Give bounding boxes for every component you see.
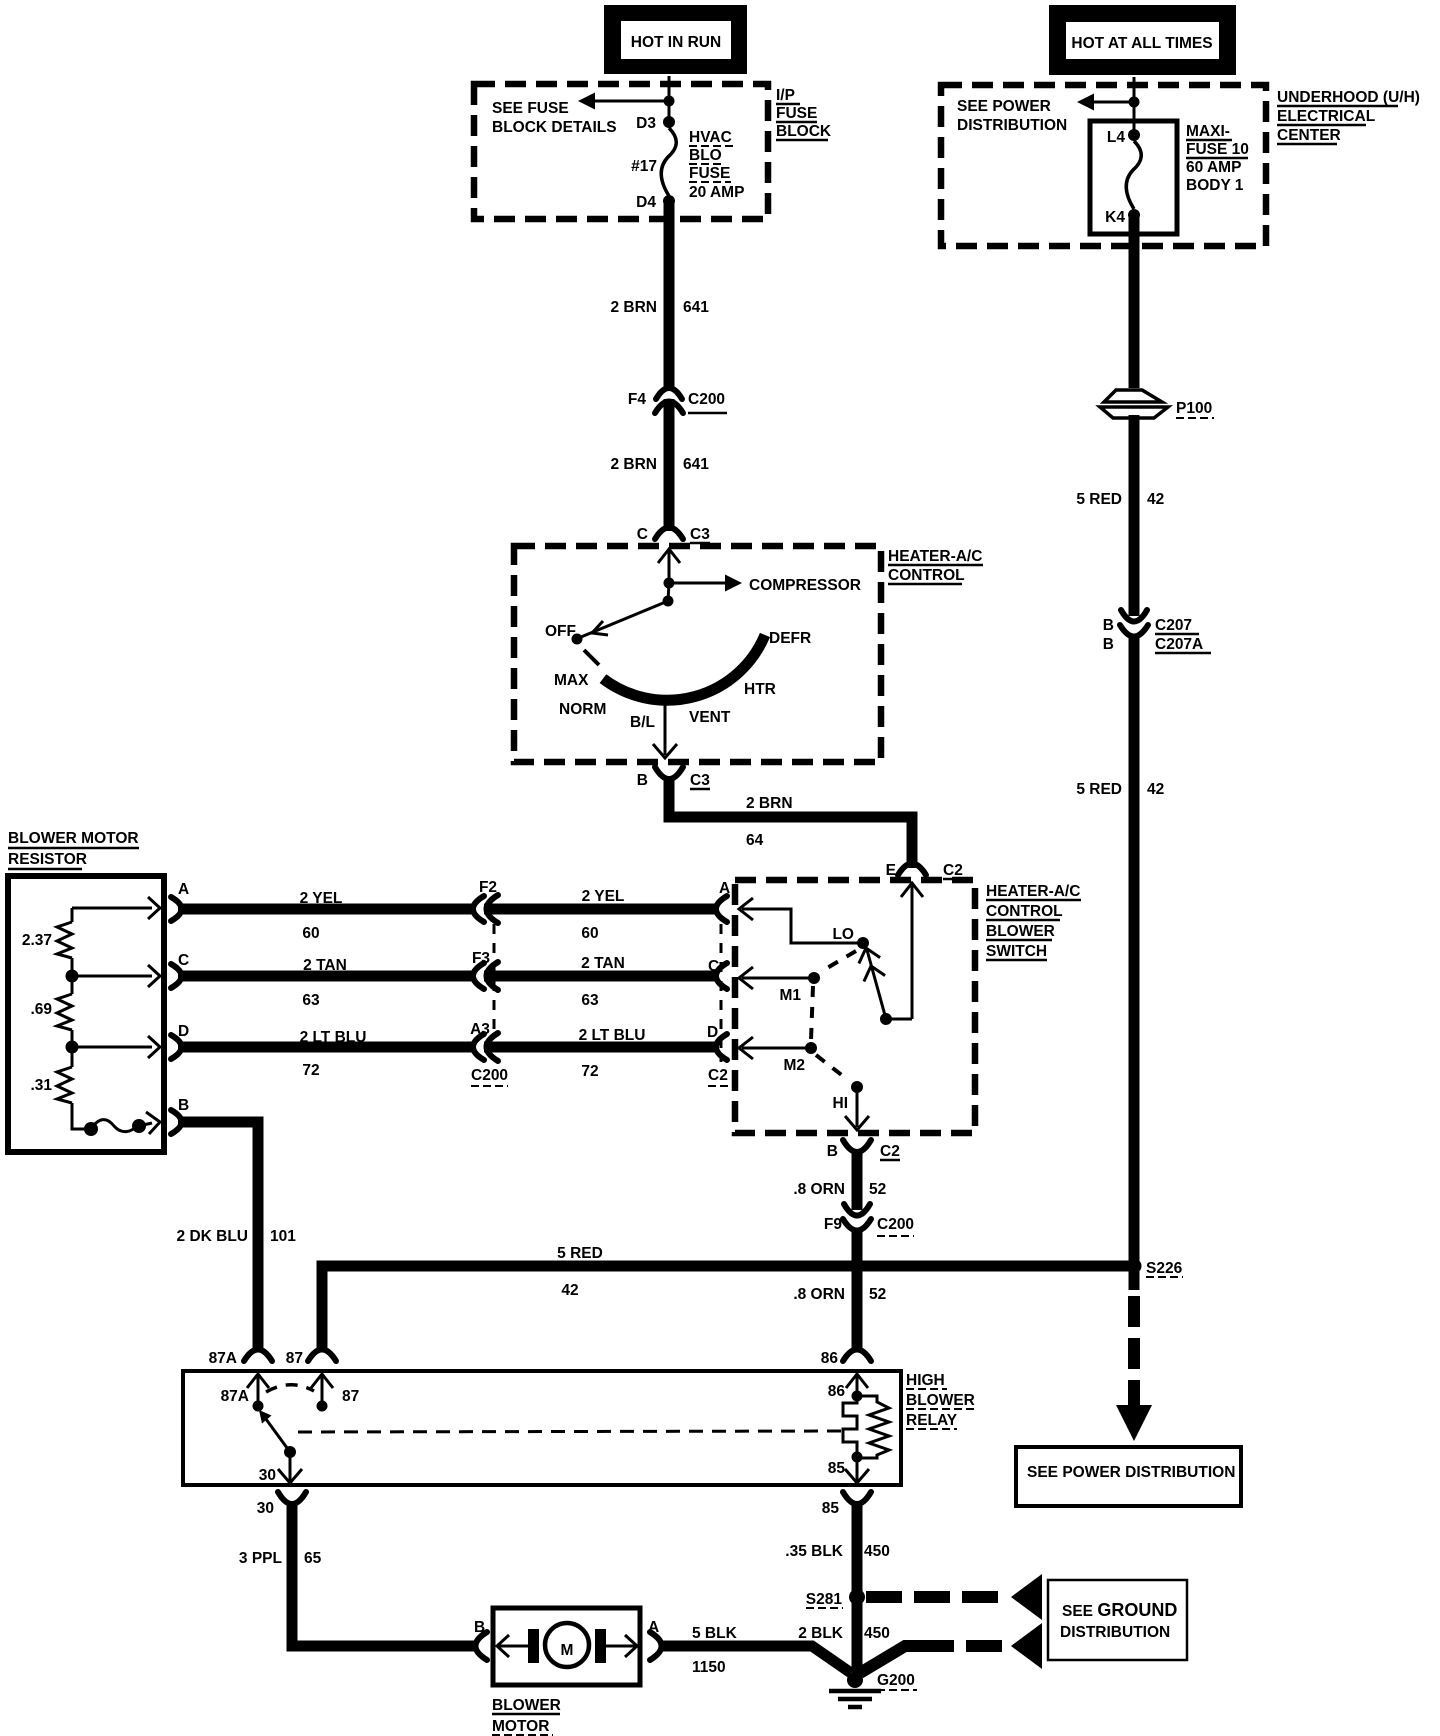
blower motor box bbox=[493, 1608, 640, 1685]
node K4 bbox=[1105, 209, 1140, 226]
wire into maxifuse bbox=[1133, 102, 1136, 135]
svg-text:CONTROL: CONTROL bbox=[986, 903, 1063, 920]
svg-text:A: A bbox=[719, 880, 730, 897]
underhood electrical center (dashed box) bbox=[941, 85, 1266, 246]
svg-text:42: 42 bbox=[1147, 781, 1164, 798]
reference box SEE POWER DISTRIBUTION bbox=[1016, 1447, 1241, 1506]
svg-text:87: 87 bbox=[286, 1350, 303, 1367]
svg-text:D: D bbox=[178, 1023, 189, 1040]
wire to node D bbox=[71, 1030, 74, 1047]
relay actuation dashed link bbox=[298, 1431, 842, 1432]
svg-text:C: C bbox=[178, 952, 189, 969]
svg-text:.31: .31 bbox=[30, 1077, 52, 1094]
svg-text:C207: C207 bbox=[1155, 617, 1192, 634]
detent dashes LO M1 M2 HI bbox=[811, 951, 856, 1080]
node LO bbox=[832, 926, 869, 949]
switch wiper to OFF bbox=[581, 601, 668, 637]
svg-text:1150: 1150 bbox=[692, 1659, 726, 1676]
pin B of C3 (flare below control) bbox=[637, 767, 710, 789]
svg-text:D3: D3 bbox=[636, 115, 656, 132]
pin B of C2 (flare below switch) bbox=[827, 1140, 900, 1160]
svg-text:86: 86 bbox=[828, 1383, 846, 1400]
dashed wire S281 to ground distribution bbox=[866, 1574, 1042, 1620]
wire .8 ORN 52 upper bbox=[793, 1152, 886, 1210]
label SEE POWER DISTRIBUTION bbox=[957, 98, 1067, 134]
svg-text:2 LT BLU: 2 LT BLU bbox=[579, 1027, 646, 1044]
connector F3 of C200 bbox=[472, 950, 498, 990]
high blower relay box bbox=[183, 1371, 901, 1485]
svg-text:2 BRN: 2 BRN bbox=[610, 299, 657, 316]
svg-text:C3: C3 bbox=[690, 772, 710, 789]
svg-text:C: C bbox=[637, 526, 648, 543]
svg-text:BLO: BLO bbox=[689, 147, 722, 164]
svg-text:HI: HI bbox=[833, 1095, 849, 1112]
label HVAC BLO FUSE 20 AMP bbox=[689, 129, 744, 201]
svg-text:2 YEL: 2 YEL bbox=[582, 888, 625, 905]
reference box SEE GROUND DISTRIBUTION bbox=[1048, 1580, 1187, 1660]
relay coil with winding and resistor bbox=[828, 1391, 889, 1484]
wire to node C bbox=[71, 958, 74, 976]
svg-text:HEATER-A/C: HEATER-A/C bbox=[888, 548, 982, 565]
connector A3 of C200 bbox=[470, 1021, 498, 1061]
svg-text:B: B bbox=[1103, 636, 1114, 653]
svg-text:86: 86 bbox=[821, 1350, 839, 1367]
node OFF position bbox=[545, 623, 583, 645]
svg-text:DEFR: DEFR bbox=[769, 630, 811, 647]
svg-text:C207A: C207A bbox=[1155, 636, 1203, 653]
svg-text:B: B bbox=[827, 1143, 838, 1160]
svg-text:87A: 87A bbox=[209, 1350, 237, 1367]
svg-text:65: 65 bbox=[304, 1550, 322, 1567]
wire 2 YEL 60 left half bbox=[178, 890, 475, 942]
svg-text:C200: C200 bbox=[471, 1067, 508, 1084]
wiper arm to LO bbox=[859, 948, 886, 1019]
svg-text:2 BRN: 2 BRN bbox=[746, 795, 793, 812]
label HIGH BLOWER RELAY bbox=[906, 1372, 975, 1429]
pin arrow 86 inside relay bbox=[828, 1374, 868, 1400]
wire 2 YEL 60 right half bbox=[484, 888, 718, 942]
svg-text:64: 64 bbox=[746, 832, 764, 849]
wire 5 RED middle segment bbox=[1129, 415, 1140, 616]
pin B flare of blower motor bbox=[474, 1619, 487, 1660]
fuse #17 HVAC BLO FUSE 20 AMP bbox=[631, 128, 676, 196]
arrow to SEE POWER DISTRIBUTION bbox=[1077, 94, 1134, 111]
svg-text:C200: C200 bbox=[688, 391, 725, 408]
svg-text:C3: C3 bbox=[690, 526, 710, 543]
svg-text:S226: S226 bbox=[1146, 1260, 1183, 1277]
svg-text:I/P: I/P bbox=[776, 87, 795, 104]
wire 2 BRN 641 lower bbox=[610, 399, 709, 531]
svg-text:OFF: OFF bbox=[545, 623, 576, 640]
svg-text:BLOWER: BLOWER bbox=[986, 923, 1055, 940]
svg-text:A: A bbox=[648, 1619, 659, 1636]
wire 5 RED from maxifuse down bbox=[1076, 218, 1164, 508]
connector F4 C200 bbox=[628, 388, 727, 413]
svg-text:FUSE: FUSE bbox=[776, 105, 817, 122]
svg-text:450: 450 bbox=[864, 1625, 890, 1642]
svg-text:COMPRESSOR: COMPRESSOR bbox=[749, 577, 861, 594]
svg-text:CENTER: CENTER bbox=[1277, 127, 1341, 144]
svg-text:5 RED: 5 RED bbox=[557, 1245, 603, 1262]
svg-text:MAXI-: MAXI- bbox=[1186, 123, 1230, 140]
svg-text:30: 30 bbox=[257, 1500, 274, 1517]
dashed wire G200 to ground distribution bbox=[860, 1623, 1042, 1673]
svg-text:641: 641 bbox=[683, 299, 709, 316]
arrow from arc to pin B bbox=[653, 701, 677, 758]
node on control feed bbox=[664, 578, 675, 589]
svg-text:.69: .69 bbox=[30, 1001, 52, 1018]
connector F9 C200 bbox=[824, 1204, 914, 1236]
fuse MAXIFUSE 10 element bbox=[1126, 141, 1141, 209]
svg-text:.35 BLK: .35 BLK bbox=[785, 1543, 844, 1560]
svg-text:B: B bbox=[474, 1619, 485, 1636]
svg-text:.8 ORN: .8 ORN bbox=[793, 1286, 845, 1303]
svg-text:K4: K4 bbox=[1105, 209, 1125, 226]
svg-text:C2: C2 bbox=[880, 1143, 900, 1160]
svg-text:85: 85 bbox=[828, 1460, 846, 1477]
svg-text:C2: C2 bbox=[943, 862, 963, 879]
node M2 bbox=[783, 1042, 817, 1074]
svg-text:450: 450 bbox=[864, 1543, 890, 1560]
svg-text:HEATER-A/C: HEATER-A/C bbox=[986, 883, 1080, 900]
svg-text:A: A bbox=[178, 881, 189, 898]
svg-text:L4: L4 bbox=[1107, 129, 1125, 146]
splice S226 bbox=[1127, 1259, 1184, 1278]
svg-text:BLOCK: BLOCK bbox=[776, 123, 832, 140]
pin arrow at E entry bbox=[901, 883, 923, 1019]
svg-text:SEE GROUND: SEE GROUND bbox=[1062, 1600, 1177, 1620]
pin A flare of blower motor bbox=[648, 1619, 662, 1660]
label HEATER-A/C CONTROL BLOWER SWITCH bbox=[986, 883, 1081, 960]
switch wiper common bbox=[880, 1013, 912, 1025]
wire stub from HOT IN RUN into fuse block bbox=[668, 76, 671, 101]
svg-text:52: 52 bbox=[869, 1286, 886, 1303]
resistor .69 bbox=[30, 976, 72, 1030]
svg-text:2 TAN: 2 TAN bbox=[581, 955, 625, 972]
arrow to SEE FUSE BLOCK DETAILS bbox=[578, 93, 669, 110]
power flag HOT IN RUN bbox=[604, 5, 747, 74]
wire 5 RED 42 to relay bbox=[322, 1245, 1134, 1352]
relay armature wiper 30 bbox=[259, 1410, 302, 1484]
pin A flare into switch bbox=[716, 880, 730, 922]
svg-text:#17: #17 bbox=[631, 158, 657, 175]
wire .8 ORN 52 lower bbox=[793, 1230, 886, 1352]
svg-text:MOTOR: MOTOR bbox=[492, 1718, 549, 1735]
node junction at top of fuse bbox=[664, 96, 675, 107]
wire 5 BLK 1150 bbox=[661, 1625, 851, 1676]
node junction above maxifuse bbox=[1129, 97, 1140, 108]
power flag HOT AT ALL TIMES bbox=[1049, 5, 1236, 75]
svg-text:S281: S281 bbox=[806, 1591, 843, 1608]
pin 87A flare at relay bbox=[209, 1350, 272, 1368]
svg-text:5 RED: 5 RED bbox=[1076, 491, 1122, 508]
label BLOWER MOTOR bbox=[492, 1697, 561, 1735]
svg-text:641: 641 bbox=[683, 456, 709, 473]
wire 2 LT BLU 72 left half bbox=[178, 1029, 475, 1079]
wire 2 BLK 450 bbox=[798, 1597, 890, 1676]
svg-text:VENT: VENT bbox=[689, 709, 731, 726]
label HEATER-A/C CONTROL bbox=[888, 548, 983, 584]
svg-text:C2: C2 bbox=[708, 1067, 728, 1084]
connector F2 of C200 bbox=[473, 879, 498, 923]
splice S281 bbox=[806, 1589, 865, 1608]
label MAXI-FUSE 10 60 AMP BODY 1 bbox=[1186, 123, 1249, 194]
wire 2 LT BLU 72 right half bbox=[484, 1027, 718, 1080]
node switch common bbox=[663, 596, 674, 607]
node M1 bbox=[779, 972, 820, 1004]
pin arrow 87 inside relay bbox=[311, 1374, 359, 1412]
svg-text:101: 101 bbox=[270, 1228, 296, 1245]
svg-text:BLOWER: BLOWER bbox=[906, 1392, 975, 1409]
svg-text:DISTRIBUTION: DISTRIBUTION bbox=[1060, 1624, 1170, 1641]
svg-text:F4: F4 bbox=[628, 391, 646, 408]
I/P fuse block (dashed box) bbox=[474, 84, 768, 219]
svg-text:HVAC: HVAC bbox=[689, 129, 732, 146]
pin 30 flare below relay bbox=[257, 1492, 306, 1517]
svg-text:P100: P100 bbox=[1176, 400, 1212, 417]
svg-text:SEE POWER DISTRIBUTION: SEE POWER DISTRIBUTION bbox=[1027, 1464, 1235, 1481]
maxifuse housing box bbox=[1090, 121, 1177, 234]
node D3 bbox=[636, 115, 675, 132]
rotary position arc MAX-NORM-B/L-VENT-HTR-DEFR bbox=[554, 630, 811, 731]
pin B flare of resistor bbox=[171, 1097, 189, 1134]
connector B C207 C207A bbox=[1103, 610, 1211, 653]
line M1 to pin C bbox=[739, 967, 814, 989]
svg-text:MAX: MAX bbox=[554, 672, 589, 689]
svg-text:72: 72 bbox=[581, 1063, 598, 1080]
svg-text:RESISTOR: RESISTOR bbox=[8, 851, 87, 868]
svg-text:2 BLK: 2 BLK bbox=[798, 1625, 844, 1642]
node HI bbox=[833, 1081, 864, 1112]
node L4 bbox=[1107, 129, 1140, 146]
svg-text:72: 72 bbox=[302, 1062, 319, 1079]
motor M symbol with brushes bbox=[497, 1623, 637, 1667]
svg-text:G200: G200 bbox=[877, 1672, 915, 1689]
pin A flare of resistor bbox=[171, 881, 189, 921]
wire stub from HOT AT ALL TIMES bbox=[1133, 77, 1136, 102]
svg-text:B/L: B/L bbox=[630, 714, 655, 731]
svg-text:60: 60 bbox=[581, 925, 598, 942]
label I/P FUSE BLOCK bbox=[776, 87, 832, 140]
svg-text:HIGH: HIGH bbox=[906, 1372, 945, 1389]
svg-text:D: D bbox=[707, 1024, 718, 1041]
svg-text:LO: LO bbox=[832, 926, 854, 943]
svg-text:2.37: 2.37 bbox=[22, 932, 52, 949]
label UNDERHOOD (U/H) ELECTRICAL CENTER bbox=[1277, 89, 1420, 144]
resistor .31 bbox=[30, 1047, 72, 1103]
svg-text:63: 63 bbox=[581, 992, 599, 1009]
wire 2 BRN 641 upper bbox=[610, 204, 709, 390]
svg-text:M: M bbox=[561, 1642, 574, 1659]
pin arrow at C3 entry bbox=[658, 549, 680, 583]
svg-text:BLOWER MOTOR: BLOWER MOTOR bbox=[8, 830, 139, 847]
svg-text:52: 52 bbox=[869, 1181, 886, 1198]
svg-text:HOT IN RUN: HOT IN RUN bbox=[631, 34, 721, 51]
node at pin D tap bbox=[66, 1041, 79, 1054]
pin arrow 87A inside relay bbox=[221, 1374, 269, 1412]
svg-text:BLOWER: BLOWER bbox=[492, 1697, 561, 1714]
ground G200 bbox=[829, 1672, 917, 1707]
svg-text:B: B bbox=[637, 772, 648, 789]
line LO to pin A bbox=[739, 898, 863, 943]
pin 85 flare below relay bbox=[822, 1492, 871, 1517]
line to pin C bbox=[72, 965, 160, 987]
svg-text:BODY 1: BODY 1 bbox=[1186, 177, 1244, 194]
connector C2 dashed tie line bbox=[708, 924, 728, 1086]
arrow HI to pin B bbox=[845, 1087, 869, 1130]
pin D flare of resistor bbox=[171, 1023, 189, 1059]
svg-text:B: B bbox=[1103, 617, 1114, 634]
svg-text:D4: D4 bbox=[636, 194, 656, 211]
svg-text:87: 87 bbox=[342, 1388, 359, 1405]
thermal limiter to pin B bbox=[72, 1103, 160, 1136]
wire 2 BRN 64 bbox=[669, 779, 912, 868]
dashed wiper detent bbox=[584, 650, 599, 665]
svg-text:3 PPL: 3 PPL bbox=[239, 1550, 282, 1567]
svg-text:C: C bbox=[708, 958, 719, 975]
svg-text:60: 60 bbox=[302, 925, 319, 942]
svg-text:87A: 87A bbox=[221, 1388, 249, 1405]
grommet P100 bbox=[1100, 390, 1214, 418]
svg-text:5 RED: 5 RED bbox=[1076, 781, 1122, 798]
dashed wire from S226 to SEE POWER DISTRIBUTION bbox=[1116, 1266, 1152, 1441]
svg-text:SEE FUSE: SEE FUSE bbox=[492, 100, 569, 117]
svg-text:2 LT BLU: 2 LT BLU bbox=[300, 1029, 367, 1046]
label SEE FUSE BLOCK DETAILS bbox=[492, 100, 617, 136]
pin C flare of resistor bbox=[171, 952, 189, 988]
pin C flare into switch bbox=[708, 958, 727, 989]
heater-A/C control blower switch (dashed box) bbox=[735, 880, 975, 1133]
pin D flare into switch bbox=[707, 1024, 727, 1060]
wire 2 DK BLU 101 bbox=[177, 1122, 297, 1352]
svg-text:HTR: HTR bbox=[744, 681, 776, 698]
node D4 bbox=[636, 194, 675, 211]
svg-text:F2: F2 bbox=[479, 879, 497, 896]
line M2 to pin D bbox=[739, 1037, 811, 1059]
line to pin D bbox=[72, 1036, 160, 1058]
label BLOWER MOTOR RESISTOR bbox=[8, 830, 139, 869]
svg-text:63: 63 bbox=[302, 992, 320, 1009]
resistor 2.37 bbox=[22, 922, 72, 958]
wire 2 TAN 63 left half bbox=[178, 957, 475, 1009]
svg-text:30: 30 bbox=[259, 1467, 276, 1484]
svg-text:NORM: NORM bbox=[559, 701, 606, 718]
svg-text:UNDERHOOD (U/H): UNDERHOOD (U/H) bbox=[1277, 89, 1420, 106]
svg-text:42: 42 bbox=[1147, 491, 1164, 508]
svg-text:CONTROL: CONTROL bbox=[888, 567, 965, 584]
svg-text:60 AMP: 60 AMP bbox=[1186, 159, 1241, 176]
svg-text:M1: M1 bbox=[779, 987, 801, 1004]
svg-text:85: 85 bbox=[822, 1500, 840, 1517]
connector C200 dashed tie line bbox=[471, 924, 508, 1086]
svg-text:F9: F9 bbox=[824, 1216, 842, 1233]
svg-text:DISTRIBUTION: DISTRIBUTION bbox=[957, 117, 1067, 134]
wire junction to D3 bbox=[668, 101, 671, 122]
pin 87 flare at relay bbox=[286, 1350, 336, 1368]
svg-text:SEE POWER: SEE POWER bbox=[957, 98, 1051, 115]
svg-text:E: E bbox=[886, 862, 896, 879]
wire 3 PPL 65 bbox=[239, 1504, 477, 1646]
wire 2 TAN 63 right half bbox=[484, 955, 718, 1009]
svg-text:RELAY: RELAY bbox=[906, 1412, 958, 1429]
wire .35 BLK 450 bbox=[785, 1504, 890, 1597]
svg-text:ELECTRICAL: ELECTRICAL bbox=[1277, 108, 1375, 125]
blower motor resistor box bbox=[8, 876, 164, 1152]
arrow to COMPRESSOR bbox=[669, 575, 861, 595]
svg-text:2 TAN: 2 TAN bbox=[303, 957, 347, 974]
dashed throw arc 87A-87 bbox=[266, 1385, 314, 1392]
svg-text:SWITCH: SWITCH bbox=[986, 943, 1047, 960]
svg-text:42: 42 bbox=[561, 1282, 578, 1299]
pin C of C3 (flare into heater control) bbox=[637, 526, 710, 543]
svg-text:5 BLK: 5 BLK bbox=[692, 1625, 738, 1642]
svg-text:C200: C200 bbox=[877, 1216, 914, 1233]
svg-text:FUSE 10: FUSE 10 bbox=[1186, 141, 1249, 158]
svg-text:FUSE: FUSE bbox=[689, 165, 730, 182]
node at pin C tap bbox=[66, 970, 79, 983]
wire 5 RED lower segment bbox=[1076, 636, 1164, 1266]
svg-text:2 BRN: 2 BRN bbox=[610, 456, 657, 473]
heater-A/C control (dashed box) bbox=[514, 546, 881, 762]
svg-text:2 DK BLU: 2 DK BLU bbox=[177, 1228, 248, 1245]
svg-text:20 AMP: 20 AMP bbox=[689, 184, 744, 201]
pin E of C2 (flare into blower switch) bbox=[886, 862, 963, 879]
resistor feed line to pin A bbox=[72, 897, 160, 922]
svg-text:BLOCK DETAILS: BLOCK DETAILS bbox=[492, 119, 617, 136]
svg-text:M2: M2 bbox=[783, 1057, 805, 1074]
svg-text:2 YEL: 2 YEL bbox=[300, 890, 343, 907]
svg-text:B: B bbox=[178, 1097, 189, 1114]
svg-text:HOT AT ALL TIMES: HOT AT ALL TIMES bbox=[1071, 35, 1212, 52]
svg-text:.8 ORN: .8 ORN bbox=[793, 1181, 845, 1198]
pin 86 flare at relay bbox=[821, 1350, 871, 1368]
